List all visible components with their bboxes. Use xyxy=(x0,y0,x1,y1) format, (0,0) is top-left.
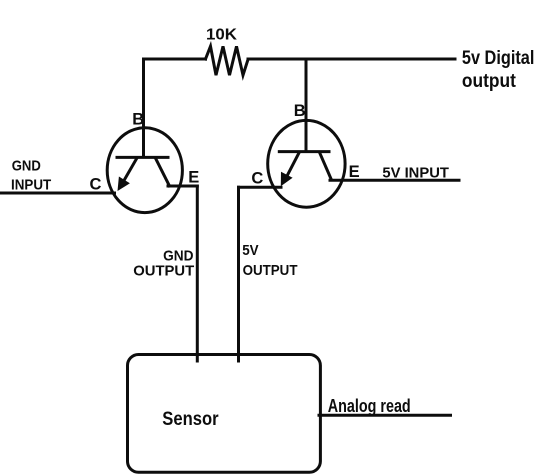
svg-text:Sensor: Sensor xyxy=(162,409,219,430)
transistor Q2 body circle xyxy=(268,120,345,207)
svg-text:Analog read: Analog read xyxy=(328,396,411,416)
wire: Q1 emitter to GND OUTPUT corner xyxy=(168,185,197,188)
svg-text:5v Digital: 5v Digital xyxy=(462,48,535,69)
transistor Q1 collector lead with arrow xyxy=(118,159,137,191)
transistor Q2 emitter lead xyxy=(320,153,332,180)
wire: Q1 base from top rail xyxy=(142,59,145,157)
svg-text:GND: GND xyxy=(12,158,41,175)
wire: GND OUTPUT vertical xyxy=(196,186,199,361)
svg-text:OUTPUT: OUTPUT xyxy=(133,263,194,280)
sensor box xyxy=(128,355,321,473)
svg-text:C: C xyxy=(90,175,102,193)
wire: top rail left segment xyxy=(144,58,206,61)
svg-text:B: B xyxy=(294,102,306,120)
transistor Q2 collector lead with arrow xyxy=(281,153,299,187)
transistor Q1 base bar xyxy=(117,156,168,159)
svg-text:5V: 5V xyxy=(242,242,258,259)
wire: GND INPUT horizontal xyxy=(0,192,115,195)
wire: Q2 base from top rail xyxy=(305,59,308,152)
svg-text:INPUT: INPUT xyxy=(11,177,51,194)
svg-text:C: C xyxy=(251,169,263,187)
transistor Q1 body circle xyxy=(107,128,182,213)
svg-text:E: E xyxy=(188,168,199,186)
wire: Q2 collector to 5V OUTPUT corner xyxy=(239,186,282,189)
wire: 5V OUTPUT vertical xyxy=(237,187,240,361)
svg-text:E: E xyxy=(349,163,360,181)
svg-text:5V INPUT: 5V INPUT xyxy=(382,164,449,181)
transistor Q1 emitter lead xyxy=(156,159,170,186)
wire: Q2 emitter / 5V INPUT horizontal xyxy=(330,179,459,182)
transistor Q2 base bar xyxy=(279,150,329,153)
svg-text:B: B xyxy=(132,110,144,128)
resistor R1 10K xyxy=(206,46,249,75)
wire: Analog read output xyxy=(319,414,451,417)
wire: top rail right segment to 5v Digital output xyxy=(248,58,455,61)
svg-text:OUTPUT: OUTPUT xyxy=(243,262,298,279)
svg-text:output: output xyxy=(462,71,517,92)
svg-text:10K: 10K xyxy=(206,27,237,44)
